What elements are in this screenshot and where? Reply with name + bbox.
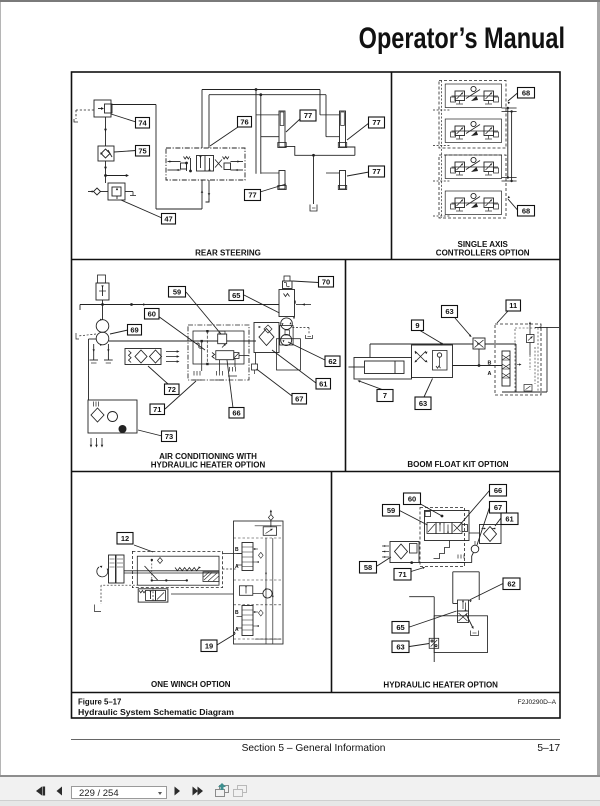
winch control enclosure (dashed) [132,551,222,587]
pilot dashed to tank left [76,333,96,339]
callout 11 [497,300,521,323]
svg-text:77: 77 [372,118,380,127]
winch spool 1 [242,543,259,571]
heater motor circles [281,318,293,346]
heater pump body [279,290,311,319]
manifold block outline [188,325,249,380]
winch spool 2 [242,606,259,636]
svg-text:63: 63 [419,399,427,408]
float valve block [412,345,453,378]
callout 63 upper [442,306,473,338]
center section valve [239,586,272,598]
wire from 75 down [104,161,107,183]
spool 1 ports [235,547,242,570]
svg-text:Hydraulic System Schematic Dia: Hydraulic System Schematic Diagram [78,707,234,717]
heater enclosure [277,326,301,370]
steering cylinder 2 [338,111,346,148]
condenser assembly 72 [125,349,162,365]
connecting bus [502,107,517,182]
panel6 HYD HEATER [360,485,521,663]
callout 58 [360,557,392,573]
supply line lower [409,597,434,662]
callout 7 [357,379,393,401]
svg-text:76: 76 [240,117,248,126]
winch valve bank [234,521,284,644]
relief valve top [255,510,282,536]
svg-text:60: 60 [148,309,156,318]
brake valve [138,589,168,602]
callout 70 [293,277,334,288]
first page button [36,787,45,796]
port labels [488,361,492,378]
panel5 ONE WINCH [95,510,284,652]
callout 61 [272,350,331,389]
cooler fan unit 73 [88,400,137,433]
callout 77d [347,166,385,177]
wire cylinder to valve [370,343,473,358]
svg-text:B: B [235,610,239,616]
svg-text:59: 59 [387,506,395,515]
pilot dashes to tank [95,585,154,611]
wire from 74 down [104,117,107,146]
return wire to pump [410,553,473,564]
boom cylinder 7 [349,358,412,380]
svg-text:67: 67 [494,503,502,512]
svg-text:ONE WINCH OPTION: ONE WINCH OPTION [151,680,231,689]
svg-text:62: 62 [507,579,515,588]
svg-text:HYDRAULIC HEATER OPTION: HYDRAULIC HEATER OPTION [383,680,498,689]
cylinder 3 stub [261,172,279,174]
svg-text:19: 19 [205,641,213,650]
panel3 AIR CONDITIONING [76,275,340,448]
callout 19 [201,631,236,651]
wire pump to cooler [89,339,97,400]
prev view icon [216,783,229,797]
gear pump assembly [96,305,109,346]
step drain [434,541,450,559]
wires to valve bank [171,554,242,595]
svg-text:Figure 5–17: Figure 5–17 [78,698,121,707]
svg-text:77: 77 [372,167,380,176]
friction block [203,572,219,582]
pump drains to tank [90,344,113,363]
svg-text:72: 72 [168,385,176,394]
svg-text:B: B [235,547,239,553]
check valve [527,335,535,356]
svg-text:CONTROLLERS OPTION: CONTROLLERS OPTION [436,248,530,257]
captions and footer text [78,240,557,717]
drain of valve 47 [125,192,136,196]
callout 65 [392,611,457,633]
svg-text:65: 65 [396,623,404,632]
flow control valve 75 [98,146,114,161]
drain to tank [466,614,479,636]
drain valve 67 [252,364,258,374]
svg-text:B: B [488,361,492,367]
callout 63 lower [415,379,433,410]
svg-text:58: 58 [364,563,372,572]
svg-text:5–17: 5–17 [537,743,560,754]
filter 61 [254,323,279,365]
cylinder 1 stubs [256,115,279,137]
main supply line [80,303,279,306]
tank rectangle [434,616,487,653]
svg-text:68: 68 [522,88,530,97]
next view icon (disabled) [234,786,247,797]
outer border frame [72,72,561,718]
drive rod [124,571,219,573]
callout 75 [114,146,150,157]
callout 60 [145,309,206,351]
manifold details [517,347,535,391]
svg-text:74: 74 [138,118,147,127]
winch motor [97,555,124,583]
svg-text:67: 67 [295,394,303,403]
comb under valve [457,555,466,563]
svg-text:7: 7 [383,391,387,400]
pump outlet line [109,340,256,342]
inlet from right [502,326,559,392]
panel2 SINGLE AXIS [433,81,535,219]
svg-text:70: 70 [322,277,330,286]
dashed enclosure upper [439,81,506,149]
heater enclosure dashed [420,508,465,567]
svg-text:73: 73 [165,432,173,441]
branch wire right [104,174,129,177]
callout 77b [347,117,385,140]
circulation pump circle [469,533,480,553]
svg-text:63: 63 [445,307,453,316]
svg-text:75: 75 [138,146,146,155]
svg-text:71: 71 [398,570,406,579]
callout 9 [412,320,442,343]
callout 73 [138,430,177,442]
heater control valve [458,600,469,623]
manifold solenoid [212,351,249,360]
spool 2 ports [235,610,242,633]
air flow arrows [166,350,180,363]
wire 74 to tank line [111,105,202,210]
heater valve top (70) [283,276,293,289]
top supply lines [202,88,326,96]
return filter [480,525,502,544]
cylinder 2 stubs [320,115,340,137]
footer rule [71,739,560,741]
left feeder verticals [256,90,261,174]
cylinder 4 stub [326,172,340,174]
svg-text:REAR STEERING: REAR STEERING [195,249,261,258]
svg-text:69: 69 [130,325,138,334]
relief valve in manifold [218,331,227,347]
callout 74 [111,114,150,128]
svg-text:77: 77 [248,191,256,200]
solenoid valve top-left [96,275,109,300]
single axis controller 2 [445,119,501,143]
restrictor valve 63 [473,338,485,349]
check valve 74 [94,100,112,117]
single axis controller 1 [445,84,501,108]
next page button [175,787,181,796]
cylinder 2 return step [346,147,355,155]
exhaust arrows [90,438,104,448]
callout 65 [229,290,280,313]
callout 77c [245,184,287,201]
callout 62 [468,578,520,602]
svg-text:A: A [488,371,492,377]
wire valve to top loop [202,90,209,149]
svg-text:47: 47 [164,214,172,223]
panel4 BOOM FLOAT [349,300,560,410]
svg-text:HYDRAULIC HEATER OPTION: HYDRAULIC HEATER OPTION [151,460,266,469]
callout 76 [210,117,252,147]
svg-text:12: 12 [121,534,129,543]
pilot line to check valve 74 [74,110,94,122]
callout 66 [458,485,507,528]
callout 67 [257,369,307,404]
steering relief valve 47 [108,183,125,200]
svg-text:71: 71 [153,405,161,414]
svg-text:11: 11 [509,301,517,310]
tank combs [193,367,238,380]
panel1 REAR STEERING [74,88,385,224]
svg-text:Section 5 – General Informatio: Section 5 – General Information [242,743,386,754]
callout 47 [121,200,176,224]
manifold inner zone [515,328,538,392]
svg-text:F2J0290D–A: F2J0290D–A [518,699,557,706]
bank right-side gallery [255,538,282,644]
callout 71 [150,381,196,415]
steering cylinder 4 [338,171,346,190]
step line to tank [285,146,355,156]
manifold inner housing [193,330,244,365]
manifold spool [502,351,510,386]
pilot dashed to tank right [292,328,312,339]
manifold internal wires [202,342,235,371]
prev page button [57,787,63,796]
callout 12 [117,533,153,553]
pilot dash lines left [433,81,451,219]
callout 63 [392,641,429,653]
callout 59 [383,505,428,526]
svg-text:9: 9 [415,321,419,330]
svg-text:66: 66 [232,408,240,417]
svg-text:61: 61 [319,379,327,388]
clutch lever [145,558,189,582]
heater valve body [425,511,470,541]
wires valve to manifold [453,344,517,367]
callout 66 [227,360,244,418]
svg-text:62: 62 [328,357,336,366]
callout 72 [148,366,179,395]
svg-text:63: 63 [396,642,404,651]
vent arrow up [529,322,531,335]
main control valve 76 (dash-dot body) [166,148,245,180]
svg-text:61: 61 [505,514,513,523]
wire loop to heater [453,572,479,604]
inlet diamond of valve 47 [88,188,108,195]
steering cylinder 1 [278,111,286,148]
callout 68 upper [507,88,535,105]
svg-text:BOOM FLOAT KIT OPTION: BOOM FLOAT KIT OPTION [407,460,508,469]
callout 62 [288,342,340,367]
callout 69 [110,325,142,336]
svg-text:66: 66 [494,486,502,495]
steering cylinder 3 [278,171,286,190]
footer text [242,743,561,754]
callout 61 [495,513,518,526]
return spring [175,566,201,570]
inner housing [137,556,219,585]
single axis controller 4 [445,191,501,215]
svg-text:65: 65 [232,291,240,300]
orifice 63 [429,638,439,648]
tank return with ground [310,155,317,211]
right bus verticals [320,90,326,137]
last page button [193,787,204,796]
callout 71 [394,566,425,580]
callout 60 [404,493,444,517]
manifold block 11 (dashed) [495,324,541,395]
pilot squiggle [196,343,202,348]
callout 59 [169,287,222,335]
svg-text:59: 59 [173,287,181,296]
callout 68 lower [507,196,535,216]
valve drop with hook [201,180,211,202]
dashed enclosure lower [439,155,506,218]
supply filter left [382,542,419,563]
wire valve to line [80,300,103,310]
svg-text:68: 68 [522,206,530,215]
svg-text:60: 60 [408,494,416,503]
single axis controller 3 [445,155,501,179]
svg-text:77: 77 [304,111,312,120]
callout 77a [286,110,316,132]
callout 67 [477,502,507,546]
